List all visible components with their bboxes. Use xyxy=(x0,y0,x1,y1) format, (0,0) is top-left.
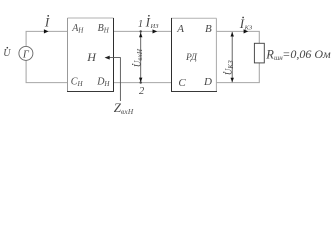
leader line from Z label to H xyxy=(106,58,121,101)
svg-text:1: 1 xyxy=(138,19,143,30)
wire source top to box H xyxy=(26,31,67,46)
source circle G xyxy=(19,46,33,60)
up arrowhead xyxy=(139,33,142,38)
node 1 dot xyxy=(140,30,142,32)
wire resistor bottom to box2 xyxy=(217,63,260,83)
svg-text:C: C xyxy=(178,77,186,89)
wire source bottom to box H xyxy=(26,60,67,82)
box H (feedback four-terminal) xyxy=(68,18,114,92)
svg-text:=0,06 Ом: =0,06 Ом xyxy=(282,47,331,61)
wire bottom between boxes xyxy=(114,82,172,84)
down arrowhead xyxy=(139,78,142,83)
svg-text:B: B xyxy=(205,23,212,35)
svg-text:I: I xyxy=(44,15,50,30)
svg-text:R: R xyxy=(265,48,274,62)
rotated voltage label U_vxH xyxy=(132,48,144,67)
svg-text:РД: РД xyxy=(185,53,198,63)
wire top between boxes xyxy=(114,30,172,32)
shunt resistor R_shn xyxy=(254,43,264,63)
svg-text:D: D xyxy=(203,76,212,88)
svg-text:Г: Г xyxy=(22,49,30,60)
box RD (four-terminal) xyxy=(171,18,217,91)
output voltage arrow U_kz xyxy=(231,32,233,82)
wire box2 to resistor top xyxy=(217,31,260,43)
voltage label U_kz (rotated) xyxy=(223,60,235,75)
svg-text:2: 2 xyxy=(139,86,145,97)
svg-text:A: A xyxy=(176,23,184,35)
svg-text:U: U xyxy=(3,48,11,59)
node line 1-2 xyxy=(140,31,142,82)
node 2 dot xyxy=(140,81,142,83)
svg-text:ИЗ: ИЗ xyxy=(150,23,160,30)
svg-text:Н: Н xyxy=(86,50,97,64)
